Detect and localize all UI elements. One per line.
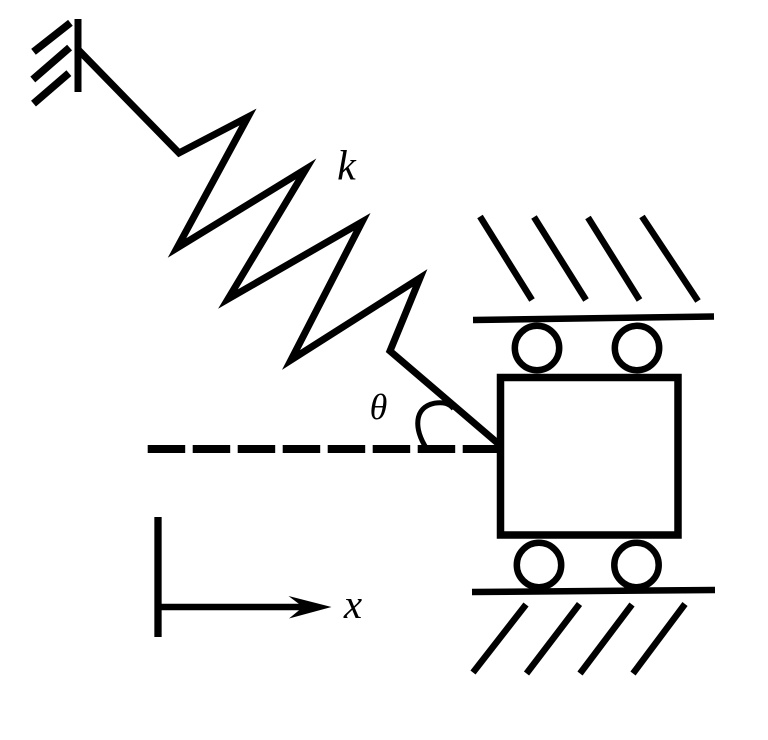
- bottom wall hatch 3: [580, 605, 632, 674]
- x-axis arrowhead: [289, 596, 332, 619]
- bottom wall hatch 4: [633, 604, 685, 674]
- svg-text:x: x: [343, 581, 362, 627]
- top wall hatch 3: [588, 218, 640, 301]
- wall hatch 1: [34, 23, 71, 52]
- bottom wall hatch 2: [527, 604, 580, 674]
- svg-text:k: k: [337, 144, 357, 190]
- bottom wall hatch 1: [473, 605, 526, 673]
- bottom roller left: [517, 543, 561, 587]
- spring k zigzag: [79, 51, 501, 447]
- bottom wall line: [472, 590, 715, 592]
- dashed line: [148, 445, 501, 453]
- top wall hatch 2: [534, 217, 586, 300]
- top roller left: [515, 326, 559, 370]
- angle arc theta: [418, 403, 454, 449]
- wall anchor vertical bar: [75, 19, 82, 92]
- wall hatch 3: [34, 73, 69, 104]
- x-axis origin tick: [154, 517, 161, 637]
- top roller right: [615, 326, 659, 370]
- top wall hatch 4: [642, 217, 698, 302]
- mass block: [501, 378, 679, 536]
- x-axis arrow shaft: [158, 604, 305, 611]
- top wall line: [473, 317, 714, 321]
- wall hatch 2: [33, 48, 70, 80]
- bottom roller right: [614, 543, 658, 587]
- svg-text:θ: θ: [370, 387, 388, 427]
- top wall hatch 1: [480, 217, 532, 301]
